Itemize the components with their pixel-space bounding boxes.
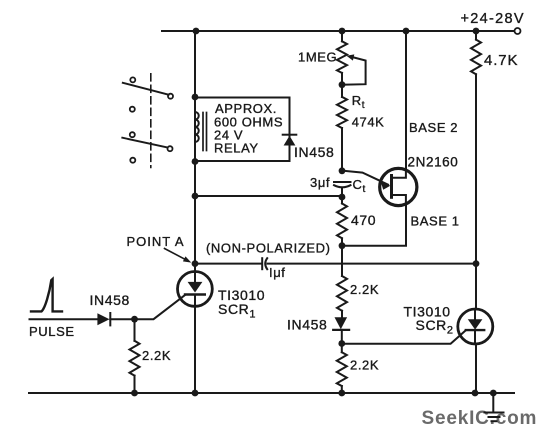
resistor R 2.2K lower middle: [341, 344, 343, 353]
resistor R 4.7K: [471, 40, 481, 75]
svg-text:+24-28V: +24-28V: [461, 11, 525, 27]
ground: [492, 393, 494, 412]
relay contact circles and blades: [130, 77, 135, 82]
svg-text:PULSE: PULSE: [29, 324, 75, 339]
wire SCR1 gate: [135, 295, 186, 319]
svg-text:4.7K: 4.7K: [484, 52, 518, 69]
switch linkage dashed: [150, 74, 152, 168]
node gate1: [131, 316, 138, 323]
node rail scr1: [192, 390, 199, 397]
node point A: [192, 260, 199, 267]
wire 4.7K branch: [475, 31, 477, 40]
node Ct top: [339, 167, 346, 174]
svg-text:Ct: Ct: [353, 177, 366, 195]
svg-text:IN458: IN458: [287, 317, 327, 333]
node rheostat bottom: [339, 81, 346, 88]
resistor 1MEG: [337, 41, 347, 73]
wire Rt to Ct node: [341, 128, 343, 171]
relay box: [195, 98, 290, 162]
svg-text:2.2K: 2.2K: [350, 358, 379, 373]
svg-text:(NON-POLARIZED): (NON-POLARIZED): [206, 241, 331, 256]
wire mid vertical through cross: [341, 246, 343, 274]
svg-text:470: 470: [351, 212, 376, 228]
node rail-4.7k: [473, 28, 480, 35]
svg-text:2.2K: 2.2K: [350, 282, 379, 297]
svg-text:IN458: IN458: [294, 144, 334, 160]
svg-text:POINT A: POINT A: [127, 234, 185, 249]
wire SCR2 gate: [342, 330, 466, 344]
wire 1MEG to Rt: [341, 73, 343, 97]
wire pulse input: [30, 318, 98, 320]
diode CR3 1N458 middle: [335, 317, 348, 329]
svg-text:SCR2: SCR2: [416, 317, 454, 337]
svg-text:1MEG: 1MEG: [298, 50, 337, 65]
resistor Rt 474K: [337, 97, 347, 128]
arrow POINT A: [165, 249, 187, 260]
node rail mid: [338, 390, 345, 397]
node box top left: [192, 94, 199, 101]
resistor R 2.2K pulse: [134, 319, 136, 341]
capacitor Ct 3uf: [334, 181, 351, 183]
node rail-left: [193, 28, 200, 35]
svg-text:2N2160: 2N2160: [408, 155, 459, 170]
svg-text:IN458: IN458: [90, 292, 130, 308]
thyristor SCR1 TI3010: [178, 272, 213, 307]
node right-cap row: [473, 260, 480, 267]
node rail-base2: [403, 28, 410, 35]
wire bottom rail: [29, 392, 514, 394]
node left wire mid: [192, 193, 199, 200]
wire base1: [342, 204, 406, 246]
svg-text:BASE 2: BASE 2: [409, 120, 458, 135]
node Ct bottom: [339, 194, 346, 201]
wire 1MEG branch top: [341, 31, 343, 41]
svg-text:Rt: Rt: [352, 93, 365, 111]
pulse waveform symbol: [31, 279, 62, 311]
resistor R 2.2K upper middle: [341, 274, 343, 276]
svg-text:SeekIC.com: SeekIC.com: [422, 408, 538, 429]
svg-text:3μf: 3μf: [310, 175, 330, 190]
wire UJT emitter: [342, 171, 388, 185]
capacitor C 1uf non-polarized: [261, 258, 263, 269]
node rail 2.2k pulse: [131, 390, 138, 397]
svg-text:BASE 1: BASE 1: [411, 214, 460, 229]
node gate2: [338, 340, 345, 347]
wire base2 vertical: [405, 31, 407, 171]
inductor relay coil: [195, 112, 199, 142]
svg-text:474K: 474K: [352, 115, 385, 130]
node base1-470: [339, 242, 346, 249]
diode CR relay 1N458: [283, 134, 297, 136]
svg-text:2.2K: 2.2K: [142, 348, 171, 363]
thyristor SCR2 TI3010: [458, 309, 493, 344]
wire point A / non-polarized cap row: [195, 263, 261, 265]
wire left main vertical: [194, 31, 196, 112]
node rail-1meg: [339, 28, 346, 35]
transistor U1 2N2160 UJT: [380, 168, 417, 205]
node rail scr2: [472, 390, 479, 397]
wire node to Ct: [195, 195, 342, 197]
wire top supply rail: [162, 30, 514, 32]
node terminal +24-28V: [515, 28, 521, 34]
svg-text:RELAY: RELAY: [214, 141, 259, 156]
wire 1MEG rheostat wiper loop: [342, 57, 366, 85]
node rail gnd: [490, 390, 497, 397]
resistor 470: [341, 197, 343, 204]
svg-text:Iμf: Iμf: [269, 265, 286, 280]
diode CR2 1N458 pulse: [97, 313, 109, 325]
svg-text:SCR1: SCR1: [218, 301, 256, 321]
node box bottom left: [192, 158, 199, 165]
